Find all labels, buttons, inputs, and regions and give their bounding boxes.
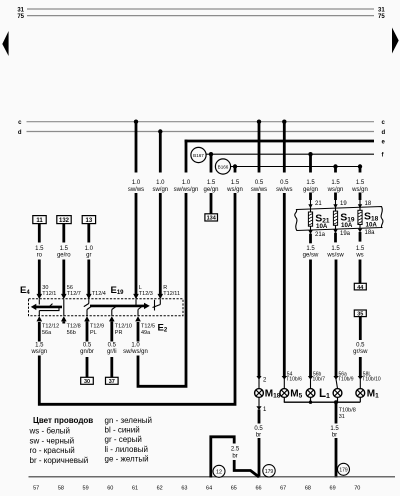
wire 0.5 sw/ws from rail c to lamp M18 — [251, 122, 267, 389]
svg-text:ge/gn: ge/gn — [203, 187, 218, 193]
rail 75 — [17, 14, 385, 20]
svg-text:75: 75 — [378, 14, 385, 20]
svg-text:21: 21 — [315, 201, 322, 207]
svg-text:59: 59 — [83, 486, 89, 492]
pin 56 T12/7 — [61, 285, 81, 299]
wire 1.5 ge/ro from connector 132 to switch pin 56 — [57, 224, 71, 294]
svg-text:li - лиловый: li - лиловый — [105, 445, 148, 454]
lamp common wire — [284, 397, 361, 404]
wire 0.5 gn/br from pin PL to connector 30 — [80, 321, 94, 377]
svg-text:ge/sw: ge/sw — [303, 253, 319, 259]
svg-text:sw/ws: sw/ws — [276, 187, 292, 193]
wire 1.5 ge/gn from rail f to connector 134 — [203, 154, 218, 214]
svg-text:19: 19 — [340, 201, 347, 207]
svg-text:ws - белый: ws - белый — [29, 426, 70, 435]
svg-text:T12/12: T12/12 — [42, 323, 59, 329]
svg-text:PR: PR — [115, 330, 123, 336]
wire 1.0 sw/gn from rail d to switch pin R — [152, 132, 168, 295]
svg-text:134: 134 — [207, 216, 217, 222]
svg-text:gr: gr — [86, 253, 91, 259]
svg-text:e: e — [382, 140, 386, 146]
rail d — [18, 130, 386, 136]
svg-text:T12/11: T12/11 — [163, 291, 180, 297]
svg-text:30: 30 — [84, 379, 90, 385]
connector 44 — [354, 283, 366, 291]
wire 0.5 gr/li from pin PR to connector 37 — [107, 321, 117, 377]
svg-text:1.0: 1.0 — [85, 246, 94, 252]
svg-text:L: L — [139, 285, 142, 291]
svg-text:56a: 56a — [42, 330, 52, 336]
svg-text:ge/gn: ge/gn — [303, 187, 318, 193]
pin R T12/11 — [158, 285, 181, 299]
connector 132 — [57, 216, 71, 225]
svg-text:ro: ro — [37, 253, 43, 259]
svg-text:gr/sw: gr/sw — [353, 349, 368, 355]
svg-text:1.5: 1.5 — [306, 180, 315, 186]
svg-text:gn/br: gn/br — [80, 349, 94, 355]
svg-text:62: 62 — [157, 486, 163, 492]
svg-text:2.5: 2.5 — [231, 447, 240, 453]
node on B166 wire — [233, 164, 237, 168]
rail e — [185, 140, 386, 146]
svg-text:10A: 10A — [366, 221, 378, 228]
svg-text:31: 31 — [378, 7, 385, 13]
ground 179 — [263, 465, 275, 477]
svg-text:1.5: 1.5 — [356, 246, 365, 252]
svg-text:ws: ws — [355, 253, 363, 259]
svg-text:35: 35 — [357, 312, 363, 318]
svg-text:1.5: 1.5 — [60, 246, 69, 252]
svg-text:13: 13 — [86, 218, 93, 224]
svg-text:E2: E2 — [158, 323, 168, 334]
svg-text:18a: 18a — [365, 230, 376, 236]
svg-text:18: 18 — [365, 201, 372, 207]
svg-text:1.0: 1.0 — [131, 343, 140, 349]
svg-text:gn - зеленый: gn - зеленый — [105, 416, 153, 425]
svg-text:56: 56 — [67, 285, 73, 291]
svg-text:gr - серый: gr - серый — [105, 435, 142, 444]
svg-text:T10b/6: T10b/6 — [286, 377, 302, 383]
svg-text:R: R — [163, 285, 167, 291]
svg-text:ws/gn: ws/gn — [226, 187, 243, 193]
svg-text:0.5: 0.5 — [280, 180, 289, 186]
wire 1.5 ws from fuse 18a to connector 44 — [355, 246, 365, 284]
svg-text:65: 65 — [231, 486, 237, 492]
svg-text:68: 68 — [305, 486, 311, 492]
svg-text:T12/4: T12/4 — [92, 291, 106, 297]
svg-text:T12/10: T12/10 — [115, 323, 132, 329]
svg-text:1.5: 1.5 — [330, 426, 339, 432]
svg-text:0.5: 0.5 — [254, 426, 263, 432]
svg-text:31: 31 — [339, 414, 345, 420]
wire 1.5 ws/sw from fuse 19a to lamp — [326, 246, 353, 389]
svg-text:49a: 49a — [141, 330, 151, 336]
svg-text:sw - черный: sw - черный — [30, 436, 75, 445]
svg-text:1.5: 1.5 — [231, 180, 240, 186]
node on rail f — [209, 152, 213, 156]
svg-text:T10b/8: T10b/8 — [339, 408, 356, 414]
svg-text:61: 61 — [132, 486, 138, 492]
svg-text:T12/9: T12/9 — [90, 323, 104, 329]
wire from B166 — [231, 166, 360, 168]
svg-text:179: 179 — [265, 469, 274, 475]
direction arrow right — [392, 28, 399, 54]
wire 1.5 ge/sw from fuse 21a to lamp L1 — [303, 246, 326, 389]
svg-text:E4: E4 — [20, 285, 30, 296]
svg-text:1.0: 1.0 — [182, 180, 191, 186]
wire 1.5 ws/gn from B166 wire to switch pin 56a — [30, 167, 242, 405]
wire 1.0 sw/ws/gn from rail e to switch pin 49a — [123, 140, 198, 387]
wire colour legend — [29, 416, 153, 465]
direction arrow left — [2, 31, 8, 56]
svg-text:37: 37 — [109, 379, 115, 385]
svg-text:0.5: 0.5 — [108, 343, 117, 349]
svg-text:B166: B166 — [218, 164, 229, 169]
svg-text:M5: M5 — [290, 389, 302, 400]
svg-text:1.5: 1.5 — [35, 343, 44, 349]
svg-text:T12/1: T12/1 — [42, 291, 56, 297]
svg-text:c: c — [382, 120, 386, 126]
svg-text:64: 64 — [206, 486, 212, 492]
svg-text:d: d — [382, 130, 386, 136]
svg-text:1.0: 1.0 — [156, 180, 165, 186]
svg-text:T10b/9: T10b/9 — [338, 377, 354, 383]
node on rail c — [134, 120, 138, 124]
svg-text:10b/7: 10b/7 — [313, 377, 326, 383]
svg-text:11: 11 — [36, 218, 43, 224]
wire 1.5 br from lamps to ground 179 — [330, 402, 355, 477]
svg-text:57: 57 — [33, 486, 39, 492]
fuse box — [295, 207, 383, 231]
svg-text:ro - красный: ro - красный — [30, 446, 75, 455]
svg-text:d: d — [18, 130, 22, 136]
switch E19/E2 internal contacts — [84, 299, 161, 316]
pin 30 T12/1 — [37, 285, 57, 299]
svg-text:1.5: 1.5 — [331, 180, 340, 186]
svg-text:0.5: 0.5 — [356, 343, 365, 349]
rail c — [18, 120, 385, 126]
svg-text:12: 12 — [216, 470, 222, 476]
wire 1.5 ge/gn from rail f to fuse S21 — [303, 154, 318, 193]
svg-text:1: 1 — [263, 407, 267, 413]
svg-text:1.5: 1.5 — [331, 246, 340, 252]
wire 2.5 br ground strap — [211, 437, 259, 478]
connector 37 — [106, 377, 119, 385]
svg-text:58: 58 — [58, 486, 64, 492]
rail f — [206, 153, 384, 159]
ground rail — [29, 476, 396, 478]
node on rail c — [257, 120, 261, 124]
svg-text:66: 66 — [255, 486, 261, 492]
pin L T12/3 — [133, 285, 153, 299]
pin T12/8 56b — [61, 316, 81, 336]
wire 0.5 br from lamp M18 to ground 179 — [254, 397, 267, 477]
svg-text:br: br — [332, 433, 337, 439]
fuse S19 10A — [333, 193, 355, 243]
connector 11 — [33, 216, 46, 225]
lamp L1 — [306, 388, 330, 400]
lamp M18 — [255, 389, 281, 400]
svg-text:B167: B167 — [193, 153, 204, 158]
pin T12/5 49a — [135, 316, 155, 336]
svg-text:44: 44 — [357, 285, 364, 291]
svg-text:70: 70 — [354, 486, 360, 492]
pin T12/4 — [86, 291, 106, 299]
ground 12 — [213, 465, 225, 477]
svg-text:sw/ws: sw/ws — [128, 187, 144, 193]
pin T12/10 PR — [109, 316, 132, 336]
svg-text:10A: 10A — [316, 223, 328, 230]
connection point B166 — [215, 159, 230, 174]
svg-text:1.5: 1.5 — [356, 180, 365, 186]
svg-text:1.5: 1.5 — [306, 246, 315, 252]
node on B166 wire — [333, 164, 337, 168]
connector 30 — [81, 377, 94, 385]
svg-text:19a: 19a — [340, 231, 351, 237]
svg-text:br: br — [256, 433, 261, 439]
svg-text:PL: PL — [90, 330, 97, 336]
svg-text:sw/ws: sw/ws — [251, 187, 267, 193]
svg-text:sw/gn: sw/gn — [152, 187, 168, 193]
ground 179 — [338, 463, 350, 475]
svg-text:c: c — [18, 120, 22, 126]
svg-text:L1: L1 — [319, 388, 330, 400]
svg-text:21a: 21a — [315, 232, 326, 238]
svg-text:30: 30 — [42, 285, 48, 291]
svg-text:T12/8: T12/8 — [67, 323, 81, 329]
svg-text:69: 69 — [330, 486, 336, 492]
wire 1.0 gr from connector 13 to switch pin T12/4 — [85, 224, 94, 294]
current track numbers — [33, 486, 360, 492]
svg-text:T12/7: T12/7 — [67, 291, 81, 297]
svg-text:2: 2 — [263, 378, 267, 384]
svg-text:ge - желтый: ge - желтый — [105, 454, 149, 463]
fuse S21 10A — [308, 193, 330, 244]
connection point B167 — [191, 147, 206, 162]
svg-text:T10b/10: T10b/10 — [362, 377, 381, 383]
svg-text:T12/3: T12/3 — [139, 291, 153, 297]
svg-text:Цвет проводов: Цвет проводов — [33, 416, 93, 425]
node on B166 wire — [358, 164, 362, 168]
svg-text:132: 132 — [59, 218, 70, 224]
svg-text:ws/gn: ws/gn — [351, 187, 368, 193]
svg-text:sw/ws/gn: sw/ws/gn — [123, 349, 148, 355]
svg-text:0.5: 0.5 — [83, 343, 92, 349]
svg-text:75: 75 — [17, 14, 24, 20]
wire 1.5 ws/gn from B166 wire to fuse S18 — [351, 167, 368, 194]
svg-text:T12/5: T12/5 — [141, 323, 155, 329]
svg-text:63: 63 — [181, 486, 187, 492]
svg-text:1.5: 1.5 — [207, 180, 216, 186]
pin T12/9 PL — [84, 316, 104, 336]
node on rail d — [158, 129, 162, 133]
svg-text:M1: M1 — [367, 389, 379, 400]
switch E4 internal contacts — [31, 299, 64, 316]
wire 1.5 ro from connector 11 to switch pin 30 — [35, 224, 44, 294]
svg-text:br: br — [232, 454, 237, 460]
svg-text:31: 31 — [17, 7, 24, 13]
rail 31 — [17, 7, 385, 13]
svg-text:179: 179 — [339, 468, 348, 474]
wire 0.5 sw/ws from rail c to lamp M5 — [276, 122, 302, 389]
svg-text:ws/gn: ws/gn — [327, 187, 344, 193]
svg-text:sw/ws/gn: sw/ws/gn — [174, 187, 199, 193]
svg-text:br - коричневый: br - коричневый — [30, 456, 89, 465]
wire 1.0 sw/ws from rail c to switch pin L — [128, 122, 144, 294]
node on rail f — [308, 152, 312, 156]
lamp M5 — [280, 389, 303, 400]
svg-text:67: 67 — [280, 486, 286, 492]
svg-text:M18: M18 — [265, 389, 281, 400]
svg-text:10A: 10A — [341, 222, 353, 229]
svg-text:1.0: 1.0 — [132, 180, 141, 186]
svg-text:0.5: 0.5 — [255, 180, 264, 186]
svg-text:bl - синий: bl - синий — [105, 426, 140, 435]
switch assembly E4/E19/E2 dashed housing — [29, 299, 184, 316]
svg-text:56b: 56b — [67, 330, 76, 336]
svg-text:ge/ro: ge/ro — [57, 253, 71, 259]
connector 35 — [354, 310, 366, 318]
lamp (56a) — [333, 389, 342, 398]
svg-text:ws/sw: ws/sw — [326, 253, 344, 259]
connector 13 — [82, 216, 95, 225]
pin T12/12 56a — [37, 316, 60, 336]
svg-text:60: 60 — [107, 486, 113, 492]
svg-text:E19: E19 — [111, 285, 125, 296]
node on rail c — [282, 120, 286, 124]
fuse S18 10A — [358, 193, 379, 242]
svg-text:gr/li: gr/li — [107, 349, 117, 355]
svg-text:1.5: 1.5 — [35, 246, 44, 252]
lamp M1 — [356, 389, 379, 400]
wire 0.5 gr/sw from connector 35 to lamp M1 — [353, 317, 381, 389]
connector 134 — [205, 214, 218, 222]
svg-text:f: f — [382, 153, 385, 159]
wire 1.5 ws/gn from B166 wire to fuse S19 — [327, 167, 344, 194]
svg-text:ws/gn: ws/gn — [30, 349, 47, 355]
